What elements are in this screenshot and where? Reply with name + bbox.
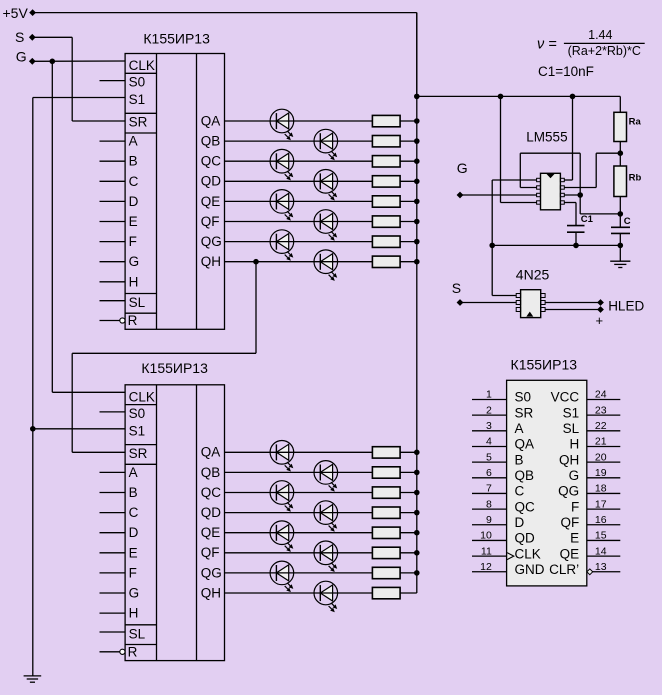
wire S down bbox=[71, 37, 73, 121]
wire ground rail bbox=[492, 244, 620, 246]
svg-text:A: A bbox=[515, 421, 524, 436]
wire R2 to bus bbox=[400, 140, 417, 142]
wire reset vertical from +5V bbox=[500, 96, 502, 202]
pin 9 of DIP bbox=[472, 524, 507, 526]
wire C1 to rail bbox=[575, 232, 577, 245]
wire pin2 U3 trigger left bbox=[520, 187, 536, 189]
svg-text:QA: QA bbox=[515, 437, 535, 452]
pin 8 of DIP bbox=[472, 508, 507, 510]
wire threshold to RbC junction bbox=[580, 213, 620, 215]
svg-text:R: R bbox=[128, 645, 138, 660]
svg-text:ν =: ν = bbox=[537, 37, 557, 53]
shift register U2 K155IR13 body bbox=[125, 385, 224, 661]
svg-text:SR: SR bbox=[129, 115, 148, 130]
LED VD6 bbox=[314, 210, 338, 241]
resistor R6 bbox=[372, 216, 400, 227]
wire S right bbox=[32, 36, 72, 38]
capacitor C bbox=[611, 226, 630, 228]
capacitor C1 bbox=[567, 225, 585, 227]
ground GND1 bbox=[24, 675, 42, 677]
wire G to CLK pin U2 bbox=[52, 391, 125, 393]
svg-text:SR: SR bbox=[515, 405, 534, 420]
wire R15 to bus bbox=[400, 572, 417, 574]
svg-text:16: 16 bbox=[595, 514, 607, 526]
LED VD14 bbox=[314, 541, 338, 572]
wire R9 to bus bbox=[400, 451, 417, 453]
wire discharge up bbox=[595, 153, 597, 187]
svg-text:B: B bbox=[515, 452, 524, 467]
node G terminal at U3 bbox=[457, 192, 464, 199]
svg-text:A: A bbox=[129, 134, 138, 149]
svg-text:QE: QE bbox=[201, 194, 221, 209]
svg-text:QA: QA bbox=[201, 113, 221, 128]
pin 13 of DIP bbox=[587, 571, 621, 573]
svg-text:CLK: CLK bbox=[129, 389, 155, 404]
wire cascade to SR pin U2 bbox=[72, 451, 125, 453]
svg-text:LM555: LM555 bbox=[526, 130, 567, 145]
node bus junction R3 bbox=[414, 158, 420, 164]
node bus junction R1 bbox=[414, 118, 420, 124]
svg-text:17: 17 bbox=[595, 498, 607, 510]
wire R3 to bus bbox=[400, 160, 417, 162]
wire G to pin3 U3 output bbox=[460, 194, 537, 196]
svg-text:QD: QD bbox=[201, 505, 222, 520]
pin 7 of U3 bbox=[560, 186, 564, 189]
svg-text:D: D bbox=[515, 515, 525, 530]
wire R5 to bus bbox=[400, 200, 417, 202]
svg-text:C: C bbox=[515, 484, 525, 499]
node branch to Vcc bbox=[570, 94, 576, 100]
wire R7 to bus bbox=[400, 241, 417, 243]
svg-text:S0: S0 bbox=[129, 406, 146, 421]
wire R11 to bus bbox=[400, 492, 417, 494]
svg-text:A: A bbox=[129, 465, 138, 480]
svg-text:B: B bbox=[129, 154, 138, 169]
wire R14 to bus bbox=[400, 552, 417, 554]
svg-text:G: G bbox=[457, 160, 468, 176]
LED VD4 bbox=[314, 170, 338, 201]
pin 3 of U3 bbox=[537, 193, 541, 196]
svg-text:QD: QD bbox=[515, 531, 536, 546]
svg-text:QG: QG bbox=[201, 565, 222, 580]
wire QB row 2 bbox=[225, 140, 373, 142]
wire S1 net to U1 bbox=[33, 97, 125, 99]
svg-text:F: F bbox=[571, 499, 579, 514]
pin 20 of DIP bbox=[587, 461, 621, 463]
wire +5V down from rail bbox=[416, 13, 418, 97]
resistor R3 bbox=[372, 156, 400, 167]
IC DIP pinout body K155IR13 bbox=[507, 380, 587, 586]
svg-text:3: 3 bbox=[486, 420, 492, 432]
svg-text:E: E bbox=[129, 214, 138, 229]
svg-text:+5V: +5V bbox=[3, 5, 29, 21]
LED VD1 bbox=[270, 109, 294, 140]
node bus junction R5 bbox=[414, 199, 420, 205]
wire discharge to RaRb junction bbox=[596, 152, 620, 154]
svg-text:G: G bbox=[129, 254, 140, 269]
pin 5 of U3 bbox=[560, 201, 564, 204]
svg-text:QF: QF bbox=[201, 214, 220, 229]
node bus junction R7 bbox=[414, 239, 420, 245]
pin 12 of DIP bbox=[472, 571, 507, 573]
svg-text:S: S bbox=[452, 280, 461, 296]
wire QA row 1 bbox=[225, 120, 373, 122]
pin 14 of DIP bbox=[587, 555, 621, 557]
pin 4 of U4 bbox=[541, 308, 545, 312]
resistor R9 bbox=[372, 447, 400, 458]
resistor Rb bbox=[614, 166, 627, 197]
wire QF row 14 bbox=[225, 552, 373, 554]
LED VD8 bbox=[314, 250, 338, 281]
LED VD2 bbox=[314, 129, 338, 160]
svg-text:QH: QH bbox=[559, 452, 579, 467]
pin 22 of DIP bbox=[587, 430, 621, 432]
pin 23 of DIP bbox=[587, 414, 621, 416]
svg-text:К155ИР13: К155ИР13 bbox=[143, 30, 210, 46]
shift register U1 K155IR13 body bbox=[125, 54, 224, 330]
timer U3 LM555 body bbox=[541, 173, 561, 210]
svg-text:QG: QG bbox=[558, 484, 579, 499]
node bus junction R11 bbox=[414, 490, 420, 496]
svg-text:14: 14 bbox=[595, 545, 607, 557]
wire S to pin2 U4 bbox=[460, 302, 516, 304]
wire threshold down bbox=[579, 153, 581, 214]
svg-text:24: 24 bbox=[595, 389, 607, 401]
svg-text:F: F bbox=[129, 234, 137, 249]
pin 10 of DIP bbox=[472, 539, 507, 541]
wire C to ground bbox=[619, 233, 621, 261]
wire QD row 12 bbox=[225, 512, 373, 514]
wire Rb down to C bbox=[619, 197, 621, 228]
LED VD15 bbox=[270, 561, 294, 592]
svg-text:19: 19 bbox=[595, 467, 607, 479]
resistor R10 bbox=[372, 467, 400, 478]
pin 4 of DIP bbox=[472, 445, 507, 447]
svg-text:1: 1 bbox=[486, 389, 492, 401]
LED VD5 bbox=[270, 190, 294, 221]
wire pin4 U4 to HLED bbox=[545, 309, 600, 311]
wire R8 to bus bbox=[400, 261, 417, 263]
svg-text:6: 6 bbox=[486, 467, 492, 479]
ground GND2 bbox=[610, 260, 630, 262]
svg-text:C: C bbox=[624, 216, 631, 227]
resistor Ra bbox=[614, 112, 627, 141]
wire S to SR pin U1 bbox=[72, 120, 125, 122]
node bus junction R14 bbox=[414, 550, 420, 556]
svg-text:GND: GND bbox=[515, 562, 545, 577]
wire pin5 U3 control right bbox=[564, 202, 576, 204]
wire S1 net to U2 bbox=[33, 428, 125, 430]
svg-text:S: S bbox=[15, 29, 24, 45]
wire +5V bus vertical bbox=[416, 13, 418, 593]
svg-text:18: 18 bbox=[595, 483, 607, 495]
node branch to reset bbox=[498, 94, 504, 100]
node gnd rail left bbox=[489, 243, 495, 249]
resistor R13 bbox=[372, 527, 400, 538]
pin 5 of DIP bbox=[472, 461, 507, 463]
svg-text:QB: QB bbox=[201, 134, 221, 149]
wire G down to U2 bbox=[51, 61, 53, 392]
svg-text:C: C bbox=[129, 505, 139, 520]
wire R13 to bus bbox=[400, 532, 417, 534]
wire S1 net down to ground bbox=[32, 98, 34, 676]
svg-text:S1: S1 bbox=[563, 405, 580, 420]
LED VD13 bbox=[270, 521, 294, 552]
wire trigger up bbox=[519, 153, 521, 187]
wire R16 to bus bbox=[400, 592, 417, 594]
svg-text:G: G bbox=[16, 49, 27, 65]
wire pin1 U3 gnd left bbox=[492, 179, 536, 181]
pin 2 of U3 bbox=[537, 186, 541, 189]
wire QC row 3 bbox=[225, 160, 373, 162]
node bus junction R6 bbox=[414, 219, 420, 225]
svg-text:21: 21 bbox=[595, 436, 607, 448]
node +5V branch bbox=[414, 94, 420, 100]
wire QH row 16 bbox=[225, 592, 373, 594]
wire G right to CLK U1 bbox=[32, 60, 125, 62]
pin 3 of U4 bbox=[516, 308, 520, 312]
svg-text:CLK: CLK bbox=[515, 546, 541, 561]
svg-text:HLED: HLED bbox=[608, 299, 644, 314]
wire to pin1 U4 bbox=[492, 295, 516, 297]
node G terminal bbox=[29, 58, 36, 65]
resistor R4 bbox=[372, 176, 400, 187]
pin 1 of U3 bbox=[537, 178, 541, 181]
pin 3 of DIP bbox=[472, 430, 507, 432]
wire pin7 U3 discharge right bbox=[564, 187, 596, 189]
svg-text:QB: QB bbox=[515, 468, 535, 483]
wire QH U1 down bbox=[255, 262, 257, 354]
node RaRb junction bbox=[618, 150, 624, 156]
pin 17 of DIP bbox=[587, 508, 621, 510]
svg-text:C: C bbox=[129, 174, 139, 189]
svg-text:S1: S1 bbox=[129, 423, 146, 438]
node HLED terminal 2 bbox=[597, 306, 604, 313]
wire +5V to Ra bbox=[619, 96, 621, 112]
node gnd rail right bbox=[618, 243, 624, 249]
node S terminal bbox=[29, 34, 36, 41]
svg-text:2: 2 bbox=[486, 404, 492, 416]
svg-text:12: 12 bbox=[480, 561, 492, 573]
svg-text:VCC: VCC bbox=[551, 390, 580, 405]
resistor R12 bbox=[372, 507, 400, 518]
pin 8 of U3 bbox=[560, 178, 564, 181]
wire QB row 10 bbox=[225, 471, 373, 473]
resistor R11 bbox=[372, 487, 400, 498]
LED VD11 bbox=[270, 481, 294, 512]
node bus junction R2 bbox=[414, 138, 420, 144]
svg-text:QE: QE bbox=[201, 525, 221, 540]
resistor R14 bbox=[372, 547, 400, 558]
node S1 junction bbox=[30, 426, 36, 432]
wire Ra to Rb bbox=[619, 142, 621, 167]
svg-text:B: B bbox=[129, 485, 138, 500]
svg-text:CLR’: CLR’ bbox=[549, 562, 579, 577]
svg-text:Ra: Ra bbox=[629, 116, 642, 127]
wire R12 to bus bbox=[400, 512, 417, 514]
resistor R16 bbox=[372, 587, 400, 598]
svg-text:К155ИР13: К155ИР13 bbox=[141, 360, 208, 376]
pin 1 of U4 bbox=[516, 294, 520, 298]
svg-text:QH: QH bbox=[201, 254, 221, 269]
svg-text:QH: QH bbox=[201, 585, 221, 600]
svg-text:QC: QC bbox=[201, 485, 222, 500]
svg-text:C1=10nF: C1=10nF bbox=[538, 64, 594, 79]
pin 7 of DIP bbox=[472, 492, 507, 494]
clock input marker DIP bbox=[507, 553, 514, 560]
node gnd rail C1 bbox=[573, 243, 579, 249]
LED VD16 bbox=[314, 581, 338, 612]
LED VD3 bbox=[270, 149, 294, 180]
node RbC junction bbox=[618, 211, 624, 217]
pin 6 of U3 bbox=[560, 193, 564, 196]
svg-text:13: 13 bbox=[595, 561, 607, 573]
svg-text:К155ИР13: К155ИР13 bbox=[511, 356, 578, 372]
svg-text:H: H bbox=[129, 274, 139, 289]
svg-text:11: 11 bbox=[481, 545, 492, 557]
svg-text:SR: SR bbox=[129, 446, 148, 461]
resistor R5 bbox=[372, 196, 400, 207]
svg-text:8: 8 bbox=[486, 498, 492, 510]
svg-text:F: F bbox=[129, 565, 137, 580]
node threshold junction bbox=[577, 192, 583, 198]
pin 5 of U4 bbox=[541, 301, 545, 305]
svg-text:SL: SL bbox=[563, 421, 580, 436]
pin 19 of DIP bbox=[587, 477, 621, 479]
svg-text:QD: QD bbox=[201, 174, 222, 189]
svg-text:E: E bbox=[129, 545, 138, 560]
svg-text:7: 7 bbox=[486, 483, 492, 495]
pin 6 of U4 bbox=[541, 294, 545, 298]
svg-text:S0: S0 bbox=[129, 75, 146, 90]
svg-text:(Ra+2*Rb)*C: (Ra+2*Rb)*C bbox=[568, 44, 641, 58]
svg-text:15: 15 bbox=[595, 530, 607, 542]
svg-text:QC: QC bbox=[515, 499, 536, 514]
node bus junction R10 bbox=[414, 470, 420, 476]
pin 11 of DIP bbox=[472, 555, 507, 557]
pin 18 of DIP bbox=[587, 492, 621, 494]
svg-text:SL: SL bbox=[129, 626, 146, 641]
svg-text:SL: SL bbox=[129, 295, 146, 310]
wire +5V rail to bus bbox=[33, 12, 417, 14]
wire trigger-threshold loop top bbox=[520, 152, 580, 154]
wire cascade left bbox=[72, 352, 256, 354]
LED VD12 bbox=[314, 501, 338, 532]
svg-text:5: 5 bbox=[486, 451, 492, 463]
svg-text:1.44: 1.44 bbox=[588, 28, 612, 42]
optocoupler U4 4N25 body bbox=[521, 290, 541, 318]
svg-text:23: 23 bbox=[595, 404, 607, 416]
svg-text:G: G bbox=[129, 586, 140, 601]
pin 1 of DIP bbox=[472, 399, 507, 401]
svg-text:CLK: CLK bbox=[129, 58, 155, 73]
svg-text:C1: C1 bbox=[581, 214, 594, 225]
svg-text:QB: QB bbox=[201, 465, 221, 480]
wire Vcc up bbox=[572, 96, 574, 180]
svg-text:G: G bbox=[569, 468, 580, 483]
wire pin5 U4 to HLED bbox=[545, 302, 600, 304]
svg-text:E: E bbox=[570, 531, 579, 546]
LED VD10 bbox=[314, 461, 338, 492]
pin 24 of DIP bbox=[587, 399, 621, 401]
node bus junction R13 bbox=[414, 530, 420, 536]
node QH U1 junction bbox=[253, 259, 259, 265]
wire QE row 13 bbox=[225, 532, 373, 534]
node +5V terminal bbox=[29, 9, 36, 16]
wire QH row 8 bbox=[225, 261, 373, 263]
pin 15 of DIP bbox=[587, 539, 621, 541]
resistor R7 bbox=[372, 236, 400, 247]
wire reset to pin4 U3 bbox=[501, 202, 537, 204]
wire cascade down bbox=[71, 353, 73, 452]
wire QF row 6 bbox=[225, 221, 373, 223]
wire gnd down to U4 bbox=[491, 245, 493, 295]
wire R10 to bus bbox=[400, 471, 417, 473]
wire R6 to bus bbox=[400, 221, 417, 223]
svg-text:20: 20 bbox=[595, 451, 607, 463]
node G junction bbox=[50, 59, 56, 65]
node bus junction R15 bbox=[414, 570, 420, 576]
svg-text:D: D bbox=[129, 525, 139, 540]
pin 2 of U4 bbox=[516, 301, 520, 305]
svg-text:H: H bbox=[129, 606, 139, 621]
resistor R2 bbox=[372, 136, 400, 147]
node bus junction R4 bbox=[414, 179, 420, 185]
svg-text:D: D bbox=[129, 194, 139, 209]
pin 6 of DIP bbox=[472, 477, 507, 479]
svg-text:22: 22 bbox=[595, 420, 607, 432]
svg-text:4: 4 bbox=[486, 436, 492, 448]
wire pin6 U3 threshold stub bbox=[564, 194, 580, 196]
resistor R1 bbox=[372, 115, 400, 126]
resistor R8 bbox=[372, 256, 400, 267]
wire QG row 15 bbox=[225, 572, 373, 574]
LED VD9 bbox=[270, 441, 294, 472]
pin 21 of DIP bbox=[587, 445, 621, 447]
formula fraction bar bbox=[564, 42, 645, 44]
svg-text:QF: QF bbox=[560, 515, 579, 530]
svg-text:H: H bbox=[569, 437, 579, 452]
node HLED terminal 1 bbox=[597, 299, 604, 306]
wire QD row 4 bbox=[225, 180, 373, 182]
wire QE row 5 bbox=[225, 200, 373, 202]
inversion marker CLR DIP bbox=[587, 569, 593, 575]
node bus junction R9 bbox=[414, 450, 420, 456]
pin 4 of U3 bbox=[537, 201, 541, 204]
svg-text:10: 10 bbox=[480, 530, 492, 542]
svg-text:4N25: 4N25 bbox=[516, 267, 550, 283]
svg-text:S1: S1 bbox=[129, 92, 146, 107]
pin 2 of DIP bbox=[472, 414, 507, 416]
wire +5V top distribution bbox=[417, 95, 621, 97]
wire QG row 7 bbox=[225, 241, 373, 243]
svg-text:QC: QC bbox=[201, 154, 222, 169]
wire QA row 9 bbox=[225, 451, 373, 453]
svg-text:S0: S0 bbox=[515, 390, 532, 405]
svg-text:+: + bbox=[596, 313, 604, 328]
svg-text:QG: QG bbox=[201, 234, 222, 249]
svg-text:R: R bbox=[128, 313, 138, 328]
node bus junction R8 bbox=[414, 259, 420, 265]
wire control down to C1 bbox=[575, 203, 577, 226]
svg-text:Rb: Rb bbox=[629, 173, 642, 184]
wire R1 to bus bbox=[400, 120, 417, 122]
LED VD7 bbox=[270, 230, 294, 261]
pin 16 of DIP bbox=[587, 524, 621, 526]
wire pin8 U3 Vcc right bbox=[564, 179, 572, 181]
wire QC row 11 bbox=[225, 492, 373, 494]
svg-text:QF: QF bbox=[201, 545, 220, 560]
